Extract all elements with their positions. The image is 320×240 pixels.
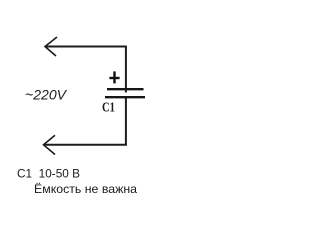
svg-text:Ёмкость не важна: Ёмкость не важна (34, 182, 137, 196)
svg-text:C1 10-50 В: C1 10-50 В (17, 166, 80, 180)
wire: right vertical conductor, upper segment (125, 46, 127, 93)
arrow: top AC terminal arrowhead (points left) (45, 37, 57, 56)
capacitor C1 top plate (107, 88, 144, 90)
wire: bottom horizontal conductor (44, 144, 127, 146)
capacitor C1 bottom plate (105, 96, 145, 98)
svg-text:C1: C1 (102, 101, 115, 116)
wire: top horizontal conductor (45, 46, 126, 48)
svg-text:~220V: ~220V (25, 86, 68, 102)
polarity mark + of capacitor C1 (109, 71, 119, 83)
wire: right vertical conductor, lower segment (125, 98, 127, 145)
arrow: bottom AC terminal arrowhead (points left) (44, 135, 56, 154)
